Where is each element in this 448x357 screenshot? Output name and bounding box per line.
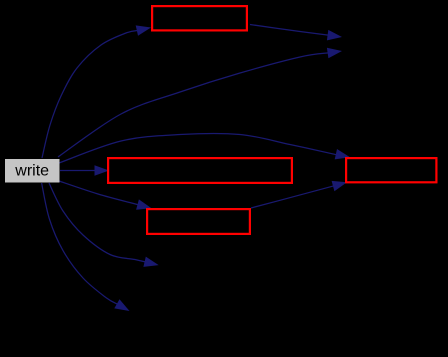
edge write->lower node [59,181,139,205]
edge top node->upper-right node [250,25,329,36]
arrowhead write->right node [335,149,350,159]
edge write->right node (over middle) [59,133,336,163]
arrowhead write->lower node [136,199,151,209]
arrowhead write->middle node [95,165,110,176]
arrowhead lower node->right node [332,181,347,191]
edge write->upper-right node [58,53,329,157]
top red node box [152,6,247,30]
arrowhead write->bottom node 2 [114,299,129,311]
write node (gray box) [5,159,60,183]
arrowhead write->top node [136,25,151,35]
edge write->top node (curve up) [42,30,139,158]
middle red node box [108,158,292,183]
arrowhead write->bottom node 1 [143,257,158,267]
edge write->middle node (horizontal) [60,170,96,172]
edge write->bottom node 2 [42,183,118,304]
right red node box [346,158,436,182]
lower red node box [147,209,250,234]
svg-text:write: write [14,163,49,180]
arrowhead write->upper-right node [327,48,342,59]
edge write->bottom node 1 [49,183,146,262]
edge lower node->right node [251,186,335,208]
arrowhead top node->upper-right node [327,30,342,41]
